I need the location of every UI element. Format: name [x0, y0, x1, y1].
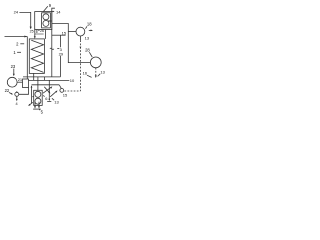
svg-text:21: 21 [18, 77, 23, 82]
svg-text:10: 10 [70, 78, 75, 83]
svg-text:18: 18 [87, 22, 92, 27]
svg-text:29: 29 [59, 51, 64, 56]
drop arrow from 25 row [34, 33, 36, 37]
tick rect edge [43, 77, 45, 81]
leader 18 [86, 26, 88, 28]
compressor unit outer box [35, 12, 52, 30]
dash before 26 [38, 30, 39, 32]
gauge 28 circle [90, 57, 101, 68]
drain arrow ii [38, 102, 40, 108]
leader 1 [17, 51, 21, 53]
drain arrow i [34, 102, 36, 108]
valve to box wire [19, 88, 29, 95]
pump to box wire [17, 81, 22, 83]
drop wire to separator [37, 77, 39, 90]
gauge 28 dashed stub [95, 68, 97, 77]
left vertical wire [26, 37, 28, 80]
branch to gauge 18 [68, 31, 76, 33]
wire y84.8 [32, 84, 60, 86]
right inner wire upper [59, 35, 61, 47]
svg-text:9: 9 [49, 3, 52, 8]
svg-text:25: 25 [30, 30, 34, 34]
left vertical at separator [31, 86, 33, 103]
arrowhead down into unit top [30, 27, 32, 30]
svg-text:15: 15 [62, 30, 67, 35]
wire into pilot valve [59, 85, 61, 89]
lower pipe [29, 79, 70, 81]
leader 6 [43, 95, 44, 96]
arrowhead on dashed vertical [80, 47, 82, 49]
leader 13 bottom [52, 98, 54, 100]
gauge 18 circle [76, 27, 85, 36]
separator circle bottom [35, 98, 41, 104]
small right arrow [89, 29, 92, 31]
svg-text:16: 16 [83, 71, 88, 76]
separator unit rect [34, 90, 43, 105]
wire 15 [52, 34, 66, 36]
right inner wire lower [59, 56, 61, 77]
svg-text:14: 14 [56, 10, 61, 15]
main trunk wire [51, 12, 53, 77]
tick into separator [32, 96, 33, 98]
rotor circle top [43, 14, 49, 20]
drop wire from compressor [44, 30, 46, 39]
relief branch wire [48, 80, 50, 97]
inlet arrow line left [5, 36, 28, 38]
leader 16 [87, 75, 92, 77]
svg-text:4: 4 [16, 102, 18, 106]
leader 28 [89, 52, 92, 57]
gauge feed wire [52, 24, 91, 63]
gauge 18 stub [79, 36, 81, 40]
tilde leader to 14 [52, 10, 54, 13]
svg-text:23: 23 [11, 64, 16, 69]
compressor inner rect [42, 13, 51, 28]
leader 2 [20, 43, 24, 45]
svg-text:13: 13 [85, 36, 90, 41]
svg-text:2: 2 [16, 42, 19, 47]
leader 22 [9, 93, 12, 95]
valve drain arrow [16, 96, 18, 99]
svg-text:13: 13 [100, 69, 105, 74]
relief diag arrow [50, 91, 57, 97]
rotor circle bottom [43, 20, 49, 26]
tilde mark on trunk [50, 48, 54, 49]
tick rect drain [33, 73, 35, 80]
svg-text:1: 1 [13, 50, 16, 55]
drain valve circle [15, 92, 19, 96]
leader 5 [39, 109, 40, 110]
svg-text:28: 28 [85, 47, 90, 52]
wire from 24 to down arrow [19, 12, 30, 27]
crossed arrow a [43, 87, 51, 93]
svg-text:5: 5 [41, 110, 44, 115]
receiver box 21 [23, 79, 29, 88]
drain arrow lower-left [29, 102, 33, 105]
coil zigzag [31, 40, 43, 72]
oil pump circle [7, 77, 17, 87]
heat exchanger body [29, 39, 44, 74]
leader 3 [57, 48, 59, 50]
jog wire top right [52, 8, 55, 11]
tick a [34, 29, 36, 34]
pilot valve circle [60, 89, 64, 93]
arrow 23 down [13, 69, 15, 75]
crossed arrow b [44, 87, 49, 93]
separator circle top [35, 91, 41, 97]
svg-text:13: 13 [54, 100, 59, 105]
arrow into rotor [48, 20, 51, 22]
leader 13 lower right [98, 74, 101, 77]
tick b [36, 29, 38, 33]
svg-text:15: 15 [63, 93, 68, 98]
tank bar [33, 108, 41, 110]
drain valve tick [16, 91, 18, 92]
pilot dashed wire [64, 90, 80, 92]
relief drain arrow [48, 98, 50, 100]
leader 9 [44, 6, 48, 11]
relief tank bar [47, 100, 51, 102]
upper pipe [23, 76, 60, 78]
svg-text:6: 6 [45, 96, 48, 101]
pilot dashed vertical [79, 40, 81, 91]
svg-text:26: 26 [40, 29, 44, 33]
svg-text:24: 24 [14, 10, 19, 15]
underline row [35, 33, 44, 35]
